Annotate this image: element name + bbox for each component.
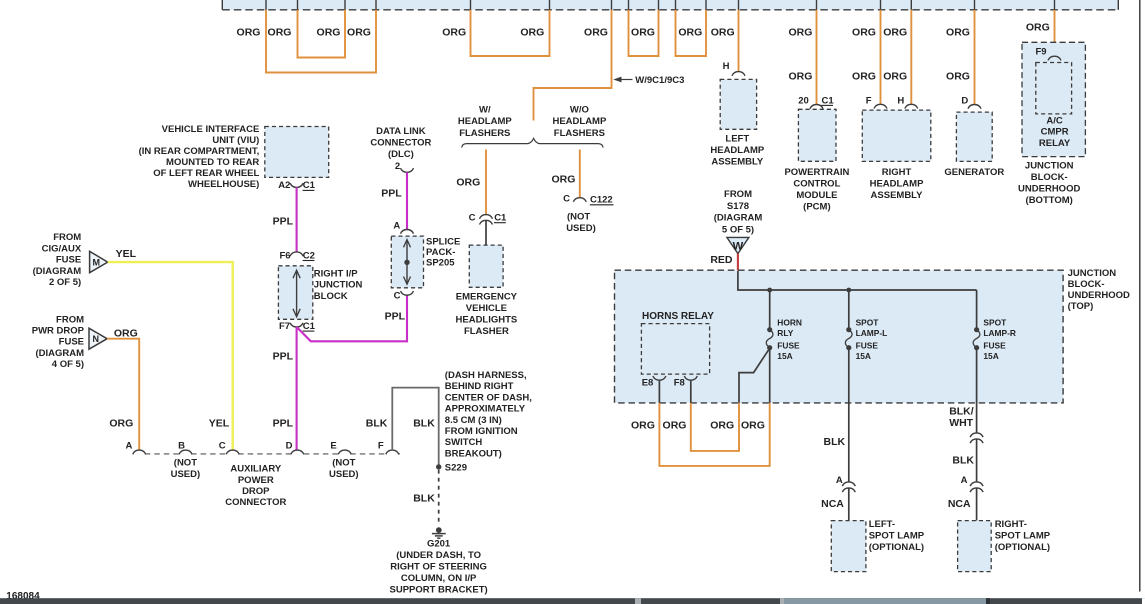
svg-text:PPL: PPL [273, 417, 294, 429]
terminal F rha [866, 96, 887, 109]
junction block underhood top box [615, 270, 1064, 403]
svg-text:GENERATOR: GENERATOR [944, 167, 1004, 178]
svg-text:ORG: ORG [520, 26, 544, 38]
junction node 1 [767, 288, 772, 293]
label not used E [329, 458, 359, 480]
svg-text:APPROXIMATELY: APPROXIMATELY [445, 404, 526, 415]
svg-text:(IN REAR COMPARTMENT,: (IN REAR COMPARTMENT, [139, 146, 260, 157]
svg-text:ORG: ORG [711, 26, 735, 38]
svg-text:(NOT: (NOT [174, 458, 197, 469]
splice pack box [391, 236, 423, 288]
BLK label spot-l [824, 436, 846, 448]
wire YEL [108, 262, 233, 450]
wire PPL dlc to splice [406, 172, 408, 229]
svg-text:SWITCH: SWITCH [445, 437, 483, 448]
svg-text:EMERGENCY: EMERGENCY [456, 291, 518, 302]
svg-text:ORG: ORG [852, 26, 876, 38]
svg-text:PACK-: PACK- [426, 247, 455, 258]
svg-text:(UNDER DASH, TO: (UNDER DASH, TO [396, 550, 481, 561]
svg-text:FROM: FROM [56, 314, 84, 325]
svg-text:HEADLAMP: HEADLAMP [710, 145, 764, 156]
ORG label n1 [114, 328, 138, 340]
wire BLK/WHT spot-r [976, 348, 978, 433]
label not used B [171, 458, 201, 480]
left headlamp assembly box [720, 79, 756, 129]
svg-text:HEADLAMP: HEADLAMP [870, 178, 924, 189]
svg-text:YEL: YEL [116, 248, 137, 260]
svg-text:E8: E8 [642, 378, 654, 389]
label horns relay [642, 311, 714, 322]
svg-text:CENTER OF DASH,: CENTER OF DASH, [445, 392, 532, 403]
svg-text:(NOT: (NOT [332, 458, 355, 469]
svg-text:W: W [733, 240, 744, 252]
svg-text:A/C: A/C [1046, 115, 1063, 126]
ORG labels gen [946, 26, 970, 82]
AC compressor relay box [1036, 63, 1072, 114]
svg-text:HORN: HORN [777, 318, 802, 328]
svg-text:C1: C1 [303, 321, 316, 332]
svg-text:FROM IGNITION: FROM IGNITION [445, 426, 518, 437]
wire ORG to generator [974, 10, 976, 105]
svg-text:D: D [961, 96, 968, 107]
svg-text:DATA LINK: DATA LINK [376, 126, 426, 137]
terminal A2 C1 viu [278, 180, 315, 191]
terminal A aux connector [133, 450, 146, 454]
svg-text:BEHIND RIGHT: BEHIND RIGHT [445, 381, 514, 392]
terminal E8 [642, 376, 666, 389]
spot lamp-r fuse 15A [973, 327, 980, 350]
svg-text:(DIAGRAM: (DIAGRAM [33, 266, 82, 277]
svg-text:ORG: ORG [317, 26, 341, 38]
svg-text:MOUNTED TO REAR: MOUNTED TO REAR [166, 157, 259, 168]
PPL label 2 [273, 350, 294, 362]
svg-text:COLUMN, ON I/P: COLUMN, ON I/P [401, 573, 477, 584]
svg-text:ORG: ORG [1026, 22, 1050, 34]
svg-text:C: C [563, 193, 570, 204]
svg-text:PPL: PPL [381, 188, 402, 200]
svg-text:ORG: ORG [741, 420, 765, 432]
aux connector dashed strip [145, 453, 400, 455]
svg-text:PPL: PPL [385, 310, 406, 322]
right spot lamp box [958, 521, 992, 572]
wire ORG loop outer-left [266, 10, 376, 73]
svg-text:ORG: ORG [347, 26, 371, 38]
svg-text:FROM: FROM [724, 189, 752, 200]
svg-text:JUNCTION: JUNCTION [1068, 268, 1117, 279]
svg-text:ORG: ORG [584, 26, 608, 38]
wire ORG pwr drop [107, 339, 139, 450]
ORG label emflash [456, 177, 480, 189]
svg-text:PPL: PPL [273, 350, 294, 362]
ORG labels group1 [237, 26, 371, 38]
svg-text:C: C [394, 291, 401, 302]
terminal F aux connector [386, 450, 399, 454]
svg-text:SPOT LAMP: SPOT LAMP [995, 531, 1051, 542]
svg-text:A: A [961, 475, 968, 486]
svg-text:NCA: NCA [821, 498, 844, 510]
connector A spot-l [836, 475, 855, 492]
ORG label lha [711, 26, 735, 38]
svg-text:BLOCK: BLOCK [314, 291, 348, 302]
svg-text:UNDERHOOD: UNDERHOOD [1068, 290, 1130, 301]
wire BLK spot-l [848, 348, 850, 482]
label generator [944, 167, 1004, 178]
vehicle interface unit box [265, 127, 329, 178]
label right IP junction block [314, 268, 363, 301]
svg-text:(DASH HARNESS,: (DASH HARNESS, [445, 370, 527, 381]
label horn rly fuse [777, 318, 802, 361]
svg-text:WHEELHOUSE): WHEELHOUSE) [188, 179, 259, 190]
svg-text:A: A [393, 220, 400, 231]
svg-text:CIG/AUX: CIG/AUX [42, 243, 82, 254]
label spot lamp-r fuse [983, 318, 1016, 361]
PPL label 3 [273, 417, 294, 429]
svg-text:15A: 15A [856, 351, 871, 361]
label W/O headlamp flashers [552, 104, 606, 139]
ORG label loopB [678, 26, 702, 38]
svg-text:HEADLIGHTS: HEADLIGHTS [456, 314, 518, 325]
svg-text:(DLC): (DLC) [388, 149, 414, 160]
svg-text:B: B [178, 441, 185, 452]
wire ORG loop F8-branch [691, 403, 739, 451]
horns relay box [641, 324, 709, 375]
svg-text:(BOTTOM): (BOTTOM) [1026, 195, 1073, 206]
svg-text:USED): USED) [171, 469, 201, 480]
svg-text:8.5 CM (3 IN): 8.5 CM (3 IN) [445, 415, 502, 426]
svg-text:S229: S229 [445, 463, 467, 474]
RED label [710, 254, 733, 266]
svg-text:DROP: DROP [242, 486, 270, 497]
label from S178 [714, 189, 763, 235]
svg-text:W/: W/ [479, 104, 491, 115]
label splice pack SP205 [426, 236, 460, 268]
emergency vehicle headlights flasher box [469, 245, 503, 287]
wire PPL viu to F6 [296, 187, 298, 252]
svg-text:(DIAGRAM: (DIAGRAM [35, 348, 84, 359]
label vehicle interface unit [139, 124, 260, 190]
PPL label dlc [381, 188, 402, 200]
svg-text:CMPR: CMPR [1041, 127, 1069, 138]
svg-text:JUNCTION: JUNCTION [314, 280, 363, 291]
wire NCA spot-r [976, 488, 978, 520]
svg-text:HORNS RELAY: HORNS RELAY [642, 311, 714, 322]
svg-text:C1: C1 [303, 180, 316, 191]
svg-text:BLK/: BLK/ [949, 405, 974, 417]
source triangle N [89, 328, 107, 349]
svg-text:FROM: FROM [53, 232, 81, 243]
splice S229 [436, 463, 467, 474]
svg-text:A2: A2 [278, 180, 290, 191]
ORG label acr [1026, 22, 1050, 34]
wire PPL branch to splice [297, 295, 407, 341]
svg-text:S178: S178 [727, 201, 749, 212]
svg-text:RELAY: RELAY [1039, 138, 1071, 149]
junction node 2 [846, 288, 851, 293]
spot lamp-l fuse 15A [845, 327, 852, 350]
svg-text:SUPPORT BRACKET): SUPPORT BRACKET) [390, 585, 488, 596]
svg-text:SP205: SP205 [426, 258, 455, 269]
svg-text:20: 20 [798, 95, 809, 106]
svg-text:W/9C1/9C3: W/9C1/9C3 [635, 75, 684, 86]
wire ORG wo-flashers [579, 150, 581, 198]
svg-text:ORG: ORG [109, 417, 133, 429]
label auxiliary power drop connector [225, 464, 286, 509]
ORG labels pcm [788, 26, 812, 82]
svg-text:BLOCK-: BLOCK- [1068, 279, 1105, 290]
connector C C1 emergency [469, 212, 507, 224]
svg-text:RED: RED [710, 254, 733, 266]
NCA label spot-l [821, 498, 844, 510]
svg-text:C1: C1 [494, 213, 507, 224]
diagram id 168084 [6, 591, 40, 602]
svg-text:SPOT: SPOT [856, 318, 880, 328]
brace [462, 138, 603, 147]
svg-text:ORG: ORG [788, 26, 812, 38]
ORG label loopA [631, 26, 655, 38]
wire RED [737, 254, 739, 271]
svg-text:ORG: ORG [883, 26, 907, 38]
wire BLK spot-r [976, 439, 978, 482]
BLK/WHT label [949, 405, 974, 429]
powertrain control module box [798, 109, 836, 161]
BLK label spot-r [952, 455, 974, 467]
svg-text:LEFT-: LEFT- [869, 519, 895, 530]
svg-text:FLASHERS: FLASHERS [459, 128, 510, 139]
PPL label splice-c [385, 310, 406, 322]
svg-text:(OPTIONAL): (OPTIONAL) [995, 542, 1050, 553]
svg-text:W/O: W/O [570, 104, 589, 115]
svg-text:BLK: BLK [413, 417, 435, 429]
ORG labels rha [852, 26, 907, 82]
svg-text:BLK: BLK [366, 417, 388, 429]
wire horn fuse down [769, 348, 771, 403]
svg-text:BLK: BLK [824, 436, 846, 448]
terminal 2 dlc [395, 161, 414, 172]
svg-text:POWER: POWER [238, 475, 274, 486]
svg-text:ORG: ORG [946, 26, 970, 38]
svg-text:H: H [897, 96, 904, 107]
svg-text:ORG: ORG [442, 26, 466, 38]
wire ORG loop mid [471, 10, 550, 56]
BLK label g [413, 492, 435, 504]
svg-text:15A: 15A [777, 351, 792, 361]
terminal E aux connector [338, 450, 351, 454]
svg-text:F9: F9 [1035, 46, 1046, 57]
svg-text:SPOT: SPOT [983, 318, 1007, 328]
svg-text:SPOT LAMP: SPOT LAMP [869, 531, 925, 542]
BLK label f1 [366, 417, 388, 429]
label left spot lamp [869, 519, 925, 553]
wire to spot-l fuse [848, 290, 850, 330]
svg-text:CONTROL: CONTROL [793, 178, 840, 189]
svg-text:ORG: ORG [852, 71, 876, 83]
svg-text:LEFT: LEFT [725, 133, 749, 144]
wire ORG loop B [676, 10, 707, 56]
svg-text:SPLICE: SPLICE [426, 236, 460, 247]
svg-text:POWERTRAIN: POWERTRAIN [784, 167, 849, 178]
right headlamp assembly box [862, 110, 931, 161]
wire to horn fuse [769, 290, 771, 330]
wire PPL F7 down to D [296, 327, 298, 450]
svg-text:C122: C122 [590, 194, 613, 205]
svg-text:HEADLAMP: HEADLAMP [552, 116, 606, 127]
svg-text:H: H [723, 61, 730, 72]
svg-text:ORG: ORG [268, 26, 292, 38]
wire BLK dashed to ground [438, 470, 440, 522]
label dash harness [445, 370, 532, 459]
terminal F9 [1035, 46, 1061, 60]
svg-text:FLASHERS: FLASHERS [554, 128, 605, 139]
svg-text:ORG: ORG [551, 174, 575, 186]
label left headlamp assembly [710, 133, 764, 167]
svg-text:(OPTIONAL): (OPTIONAL) [869, 542, 924, 553]
terminal F6 C2 [279, 250, 315, 261]
connector blkwht-blk [970, 433, 983, 443]
svg-text:(PCM): (PCM) [803, 201, 830, 212]
ground G201 [432, 527, 446, 538]
wire horn fuse branch [739, 348, 770, 403]
svg-text:(NOT: (NOT [567, 211, 590, 222]
svg-text:A: A [836, 475, 843, 486]
svg-text:(DIAGRAM: (DIAGRAM [714, 213, 763, 224]
svg-text:ORG: ORG [678, 26, 702, 38]
svg-text:C: C [469, 212, 476, 223]
svg-text:ORG: ORG [237, 26, 261, 38]
label PCM [784, 167, 849, 213]
label spot lamp-l fuse [856, 318, 888, 361]
wire ORG to left headlamp [738, 10, 740, 72]
svg-text:ASSEMBLY: ASSEMBLY [871, 190, 924, 201]
svg-text:WHT: WHT [949, 417, 973, 429]
wire BLK dash harness [392, 388, 438, 467]
label G201 [390, 538, 488, 595]
label emergency flasher [456, 291, 518, 337]
label right spot lamp [995, 519, 1051, 553]
horn rly fuse 15A [766, 327, 773, 350]
svg-text:LAMP-R: LAMP-R [983, 328, 1016, 338]
wire NCA spot-l [848, 488, 850, 520]
svg-text:PPL: PPL [273, 215, 294, 227]
svg-text:VEHICLE INTERFACE: VEHICLE INTERFACE [162, 124, 260, 135]
terminal D generator [961, 96, 981, 109]
svg-text:PWR DROP: PWR DROP [32, 326, 85, 337]
svg-text:F: F [378, 441, 384, 452]
svg-text:FUSE: FUSE [777, 340, 800, 350]
svg-text:CONNECTOR: CONNECTOR [225, 497, 286, 508]
svg-text:ORG: ORG [946, 71, 970, 83]
svg-text:BREAKOUT): BREAKOUT) [445, 448, 502, 459]
svg-text:2: 2 [395, 161, 400, 172]
bottom bar [0, 598, 1145, 604]
aux terminal letters [125, 441, 383, 452]
svg-text:ORG: ORG [663, 420, 687, 432]
ORG labels group2 [442, 26, 544, 38]
wire stubs at top box [266, 0, 1055, 10]
wire to spot-r fuse [976, 290, 978, 330]
terminal F8 [674, 376, 698, 389]
terminal H rha [897, 96, 917, 109]
right IP junction block box [278, 266, 312, 320]
wire ORG w-flashers [485, 150, 487, 215]
svg-text:JUNCTION: JUNCTION [1025, 161, 1074, 172]
splice pack internal arrow [404, 240, 411, 285]
terminal F7 C1 [279, 321, 316, 332]
svg-text:BLOCK-: BLOCK- [1031, 172, 1068, 183]
terminal C aux connector [226, 450, 239, 454]
wire ORG to right headlamp F [880, 10, 882, 105]
svg-text:E: E [330, 441, 336, 452]
terminal C splice [394, 291, 414, 302]
YEL label 1 [116, 248, 137, 260]
terminal B aux connector [179, 450, 192, 454]
svg-text:5 OF 5): 5 OF 5) [722, 225, 754, 236]
svg-text:UNIT (VIU): UNIT (VIU) [212, 135, 259, 146]
wire feed inside junction box [738, 271, 977, 290]
svg-text:F6: F6 [279, 250, 290, 261]
BLK label f2 [413, 417, 435, 429]
svg-text:UNDERHOOD: UNDERHOOD [1018, 184, 1080, 195]
svg-text:BLK: BLK [413, 492, 435, 504]
label junction block bottom [1018, 161, 1080, 207]
svg-text:ORG: ORG [631, 26, 655, 38]
svg-text:BLK: BLK [952, 455, 974, 467]
svg-text:(TOP): (TOP) [1068, 301, 1094, 312]
svg-text:RIGHT I/P: RIGHT I/P [314, 268, 358, 279]
right border line [1139, 0, 1141, 592]
wire E8 stub [658, 380, 660, 403]
svg-text:F7: F7 [279, 321, 290, 332]
svg-text:15A: 15A [983, 351, 998, 361]
svg-text:MODULE: MODULE [796, 190, 837, 201]
ORG label wire7 [584, 26, 608, 38]
label W/ headlamp flashers [458, 104, 512, 139]
svg-text:FUSE: FUSE [983, 340, 1006, 350]
svg-text:RIGHT-: RIGHT- [995, 519, 1027, 530]
connector A spot-r [961, 475, 984, 492]
ORG labels below junction box [631, 420, 765, 432]
W/9C1/9C3 arrow [613, 75, 684, 86]
PPL label 1 [273, 215, 294, 227]
svg-text:FUSE: FUSE [59, 337, 84, 348]
S178 source triangle W [727, 237, 749, 253]
svg-text:C1: C1 [822, 95, 835, 106]
label from cig aux fuse [33, 232, 82, 288]
ORG label c122 [551, 174, 575, 186]
svg-text:USED): USED) [566, 223, 596, 234]
svg-text:OF LEFT REAR WHEEL: OF LEFT REAR WHEEL [153, 168, 259, 179]
svg-text:NCA: NCA [948, 498, 971, 510]
svg-text:HEADLAMP: HEADLAMP [458, 116, 512, 127]
left spot lamp box [831, 521, 866, 572]
label right headlamp assembly [870, 167, 924, 201]
terminal 20 C1 PCM [798, 95, 834, 108]
NCA label spot-r [948, 498, 971, 510]
generator box [956, 112, 992, 161]
svg-text:F8: F8 [674, 378, 685, 389]
svg-text:RIGHT: RIGHT [882, 167, 912, 178]
svg-text:ASSEMBLY: ASSEMBLY [711, 157, 764, 168]
terminal D aux connector [291, 450, 304, 454]
svg-text:N: N [92, 334, 99, 344]
arrow inside junction block [293, 270, 300, 317]
wire ORG loop inner-left [298, 10, 346, 58]
svg-text:G201: G201 [427, 538, 451, 549]
source triangle M [90, 251, 108, 272]
svg-text:M: M [93, 257, 101, 267]
svg-text:LAMP-L: LAMP-L [856, 328, 888, 338]
YEL label 2 [209, 417, 230, 429]
junction block underhood bottom box [1022, 42, 1085, 156]
